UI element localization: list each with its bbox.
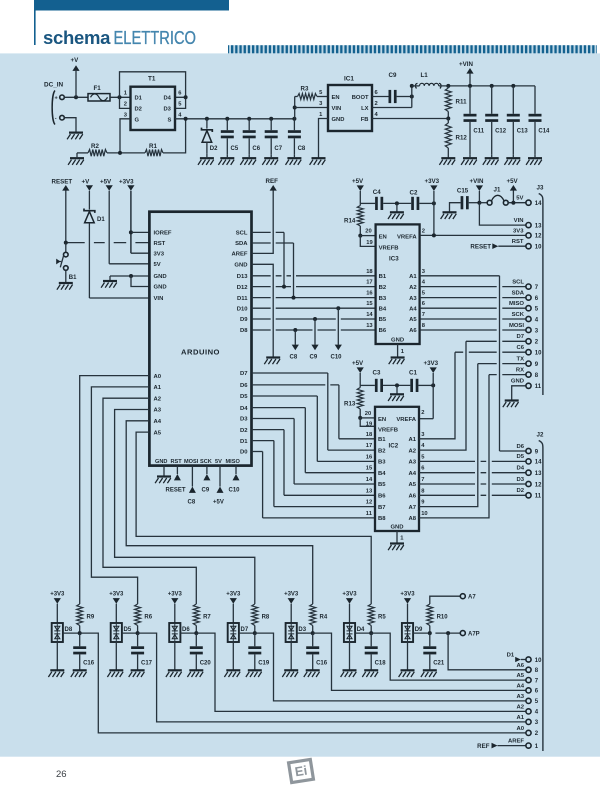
node C1 corner bbox=[431, 383, 435, 387]
svg-text:GND: GND bbox=[391, 338, 404, 344]
ground D4 bbox=[349, 642, 351, 670]
svg-text:15: 15 bbox=[366, 301, 373, 307]
pin RST bottom arrow bbox=[176, 466, 178, 474]
capacitor C12 bbox=[491, 86, 493, 114]
wire D12 to B2 bbox=[252, 286, 376, 288]
svg-text:A5: A5 bbox=[516, 673, 524, 679]
svg-text:VIN: VIN bbox=[332, 106, 342, 112]
svg-text:A2: A2 bbox=[409, 285, 417, 291]
svg-text:A7P: A7P bbox=[468, 632, 480, 638]
svg-text:SCL: SCL bbox=[236, 231, 248, 237]
svg-text:+3V3: +3V3 bbox=[424, 360, 439, 367]
wire IC3 A1 to J2 pin9 bbox=[420, 275, 500, 277]
svg-text:D4: D4 bbox=[240, 406, 248, 412]
svg-text:26: 26 bbox=[56, 769, 67, 780]
svg-text:TX: TX bbox=[516, 356, 524, 362]
svg-text:+3V3: +3V3 bbox=[109, 591, 124, 597]
wire EN pin bbox=[360, 235, 375, 237]
svg-text:REF: REF bbox=[477, 743, 490, 750]
wire C2 to +3V3 node bbox=[419, 202, 434, 204]
ground arduino GND right bbox=[266, 356, 280, 358]
wire A1 up to C6 row bbox=[419, 352, 455, 439]
node cell D4 bbox=[355, 632, 371, 634]
wire VREFB bracket IC2 bbox=[360, 418, 375, 426]
node rail C5 bbox=[225, 117, 229, 121]
node GND pins junction bbox=[129, 274, 133, 278]
resistor R5 bbox=[368, 604, 374, 626]
svg-text:SCK: SCK bbox=[200, 459, 212, 465]
svg-text:10: 10 bbox=[535, 351, 542, 357]
wire IC3 A to J3 SDA bbox=[420, 297, 526, 299]
resistor R6 bbox=[135, 604, 141, 626]
ground D8 bbox=[56, 642, 58, 670]
wire TX row to J3 pin9 bbox=[478, 363, 526, 365]
ground D7 bbox=[232, 642, 234, 670]
wire D9 to B5 bbox=[252, 318, 376, 320]
diode D6 bbox=[169, 623, 180, 642]
svg-text:18: 18 bbox=[366, 432, 373, 438]
ground C12 bbox=[485, 157, 499, 159]
svg-text:C21: C21 bbox=[433, 661, 445, 667]
pin 5V bottom arrow bbox=[219, 466, 221, 487]
pin MOSI bottom arrow bbox=[191, 466, 193, 487]
svg-text:B5: B5 bbox=[379, 317, 387, 323]
capacitor C17 bbox=[137, 633, 139, 646]
svg-text:D8: D8 bbox=[240, 328, 248, 334]
ground IC3 bbox=[391, 356, 405, 358]
svg-text:A5: A5 bbox=[154, 430, 162, 436]
svg-text:C2: C2 bbox=[410, 190, 418, 197]
svg-text:+: + bbox=[55, 96, 58, 102]
wire FB row bbox=[372, 118, 448, 120]
svg-text:C15: C15 bbox=[457, 187, 469, 194]
wire J2 pin9 row bbox=[500, 450, 526, 452]
svg-text:12: 12 bbox=[366, 500, 372, 506]
wire DC_IN- to ground bbox=[64, 118, 76, 133]
svg-text:A4: A4 bbox=[516, 683, 524, 689]
wire C1 to +3V3 node bbox=[418, 384, 433, 386]
svg-text:D2: D2 bbox=[135, 107, 142, 113]
node RESET junction bbox=[64, 241, 68, 245]
node rail D2 bbox=[205, 117, 209, 121]
capacitor C16 bbox=[79, 633, 81, 646]
ground arduino bottom bbox=[157, 475, 171, 477]
svg-text:12: 12 bbox=[535, 482, 542, 488]
svg-text:GND: GND bbox=[332, 117, 345, 123]
capacitor C21 bbox=[429, 633, 431, 646]
svg-text:G: G bbox=[135, 118, 140, 124]
connector J2 bracket bbox=[539, 441, 543, 752]
svg-text:R12: R12 bbox=[456, 135, 468, 142]
node C9/LX bbox=[410, 95, 414, 99]
svg-text:BOOT: BOOT bbox=[352, 95, 369, 101]
svg-text:14: 14 bbox=[535, 201, 542, 207]
svg-text:RESET: RESET bbox=[470, 244, 491, 251]
svg-text:B5: B5 bbox=[378, 482, 386, 488]
svg-text:A4: A4 bbox=[154, 419, 162, 425]
svg-text:MISO: MISO bbox=[226, 459, 241, 465]
svg-text:13: 13 bbox=[366, 323, 373, 329]
svg-text:C13: C13 bbox=[517, 129, 529, 135]
wire SCL bbox=[252, 231, 285, 233]
svg-text:14: 14 bbox=[535, 460, 542, 466]
svg-text:R2: R2 bbox=[91, 143, 99, 150]
wire T1 pin3 down bbox=[120, 119, 131, 153]
node SCL/D12 bbox=[282, 285, 286, 289]
node pin3 junction bbox=[118, 151, 122, 155]
svg-text:A1: A1 bbox=[409, 274, 417, 280]
svg-text:C5: C5 bbox=[231, 146, 239, 152]
wire D5 to IC2 B bbox=[252, 395, 318, 397]
svg-text:16: 16 bbox=[366, 291, 373, 297]
svg-text:18: 18 bbox=[366, 269, 373, 275]
node cell D3 bbox=[297, 632, 313, 634]
svg-text:D1: D1 bbox=[240, 439, 248, 445]
node rail C12 bbox=[490, 84, 494, 88]
svg-text:A0: A0 bbox=[516, 726, 524, 732]
svg-text:LX: LX bbox=[361, 106, 369, 112]
diode D1 bbox=[84, 209, 95, 213]
svg-text:C19: C19 bbox=[258, 661, 270, 667]
svg-text:D3: D3 bbox=[164, 107, 172, 113]
svg-text:+V: +V bbox=[82, 179, 91, 186]
svg-text:A3: A3 bbox=[516, 694, 524, 700]
wire +VIN rail bbox=[439, 85, 535, 87]
net C10 arrow bbox=[337, 308, 339, 345]
svg-text:VIN: VIN bbox=[514, 218, 524, 224]
node cell D7 bbox=[239, 632, 255, 634]
svg-text:EN: EN bbox=[332, 95, 340, 101]
svg-text:C16: C16 bbox=[316, 661, 328, 667]
svg-text:+5V: +5V bbox=[100, 179, 112, 186]
wire C6 row to J3 pin10 bbox=[455, 351, 526, 353]
ground C3/C1 bbox=[396, 385, 398, 394]
wire 3V3 pin bbox=[131, 252, 150, 254]
node pin6 junction bbox=[184, 95, 188, 99]
wire cell D3 to connector bbox=[313, 633, 526, 690]
ground C19 bbox=[248, 669, 262, 671]
level shifter IC2 bbox=[375, 407, 419, 531]
diode D2 bbox=[206, 119, 208, 129]
node cell D8 bbox=[63, 632, 80, 634]
svg-text:20: 20 bbox=[365, 229, 371, 235]
svg-text:+V: +V bbox=[71, 57, 80, 64]
svg-text:C18: C18 bbox=[375, 661, 387, 667]
capacitor C13 bbox=[512, 86, 514, 114]
node cell D6 bbox=[180, 632, 196, 634]
svg-text:D1: D1 bbox=[507, 652, 515, 658]
svg-text:EN: EN bbox=[378, 417, 386, 423]
diode D7 bbox=[228, 623, 239, 642]
svg-text:10: 10 bbox=[535, 245, 542, 251]
svg-text:+3V3: +3V3 bbox=[284, 591, 299, 597]
wire IC3 A to J3 SCL bbox=[420, 286, 526, 288]
svg-text:D12: D12 bbox=[237, 285, 249, 291]
svg-text:A3: A3 bbox=[408, 460, 416, 466]
svg-text:D0: D0 bbox=[240, 450, 248, 456]
svg-text:+VIN: +VIN bbox=[459, 61, 473, 68]
svg-text:C4: C4 bbox=[373, 189, 381, 196]
svg-text:IC2: IC2 bbox=[389, 443, 399, 450]
svg-text:SCL: SCL bbox=[512, 279, 524, 285]
svg-text:R14: R14 bbox=[344, 218, 356, 225]
svg-text:A3: A3 bbox=[154, 408, 162, 414]
svg-text:+3V3: +3V3 bbox=[168, 591, 183, 597]
svg-text:R6: R6 bbox=[144, 615, 152, 621]
svg-text:C9: C9 bbox=[389, 72, 397, 79]
resistor R4 bbox=[310, 604, 316, 626]
capacitor C19 bbox=[254, 633, 256, 646]
svg-text:+3V3: +3V3 bbox=[400, 591, 415, 597]
svg-text:D7: D7 bbox=[516, 334, 524, 340]
svg-text:R5: R5 bbox=[378, 615, 386, 621]
svg-text:MOSI: MOSI bbox=[184, 459, 199, 465]
svg-text:D6: D6 bbox=[240, 383, 248, 389]
svg-text:C8: C8 bbox=[298, 146, 306, 152]
capacitor C18 bbox=[370, 633, 372, 646]
svg-text:C17: C17 bbox=[141, 661, 153, 667]
svg-text:11: 11 bbox=[366, 511, 373, 517]
wire R2 to R1 bbox=[107, 152, 145, 154]
wire IC2 GND bbox=[396, 531, 398, 544]
svg-text:GND: GND bbox=[154, 274, 167, 280]
wire cell D4 to connector bbox=[371, 633, 526, 680]
svg-text:R11: R11 bbox=[456, 99, 468, 106]
node rail R11 bbox=[446, 84, 450, 88]
node VREFA bbox=[432, 233, 436, 237]
svg-text:VREFB: VREFB bbox=[379, 245, 399, 251]
wire arduino GND bottom bbox=[163, 466, 165, 477]
wire J1 to 5V node bbox=[508, 202, 526, 204]
wire VREFB bracket bbox=[360, 236, 375, 247]
wire LX up to L1 bbox=[372, 107, 412, 109]
level shifter IC3 bbox=[376, 224, 420, 344]
connector J2 pin10 bbox=[526, 657, 531, 662]
resistor R8 bbox=[252, 604, 258, 626]
ground D6 bbox=[174, 642, 176, 670]
node R14/EN bbox=[358, 234, 362, 238]
svg-text:D4: D4 bbox=[164, 96, 172, 102]
node C4/C2 ground bbox=[383, 202, 411, 204]
svg-text:2: 2 bbox=[375, 101, 378, 107]
svg-text:AREF: AREF bbox=[508, 739, 524, 745]
resistor R10 bbox=[427, 604, 433, 626]
wire top loop over T1 bbox=[120, 72, 186, 98]
wire D2 to IC2 B bbox=[252, 429, 285, 431]
svg-text:C6: C6 bbox=[516, 345, 524, 351]
resistor R9 bbox=[77, 604, 83, 626]
svg-text:T1: T1 bbox=[148, 76, 156, 83]
svg-text:D3: D3 bbox=[240, 417, 248, 423]
diode D5 bbox=[111, 623, 122, 642]
svg-text:D13: D13 bbox=[237, 274, 249, 280]
svg-text:A2: A2 bbox=[408, 448, 416, 454]
svg-text:11: 11 bbox=[535, 494, 542, 500]
svg-text:D8: D8 bbox=[65, 627, 73, 633]
wire IC1 GND to ground bbox=[319, 119, 329, 159]
node rail R1 bbox=[184, 117, 188, 121]
svg-text:MOSI: MOSI bbox=[509, 323, 524, 329]
node cell D5 bbox=[122, 632, 138, 634]
svg-text:B4: B4 bbox=[378, 471, 386, 477]
wire VREFA row to J3 3V3 bbox=[420, 234, 526, 236]
svg-text:A6: A6 bbox=[409, 328, 417, 334]
ground C11 bbox=[463, 157, 477, 159]
svg-text:RESET: RESET bbox=[166, 488, 186, 494]
svg-text:+3V3: +3V3 bbox=[342, 591, 357, 597]
node rail C6 bbox=[247, 117, 251, 121]
wire R3 to EN bbox=[317, 96, 328, 98]
connector J3 bracket bbox=[539, 194, 543, 396]
svg-text:D7: D7 bbox=[240, 371, 248, 377]
svg-text:7: 7 bbox=[422, 312, 425, 318]
capacitor C16 bbox=[312, 633, 314, 646]
svg-text:11: 11 bbox=[535, 384, 542, 390]
wire GND to J3 pin11 bbox=[512, 386, 526, 401]
wire A7 terminal bbox=[430, 596, 460, 604]
wire VIN to IC1 bbox=[295, 107, 328, 109]
svg-text:ELETTRICO: ELETTRICO bbox=[114, 27, 197, 48]
ground C4/C2 bbox=[396, 203, 398, 212]
svg-text:C12: C12 bbox=[495, 129, 507, 135]
wire DC_IN+ to F1 bbox=[64, 96, 88, 98]
wire D7 to IC2 B bbox=[252, 372, 328, 374]
wire BOOT to C9 bbox=[372, 96, 389, 98]
wire A3 to cell bbox=[115, 410, 255, 605]
pin SCK bottom arrow bbox=[206, 466, 208, 474]
wire C15 right to node bbox=[469, 202, 480, 204]
svg-text:C11: C11 bbox=[473, 129, 484, 135]
svg-text:R8: R8 bbox=[262, 615, 270, 621]
wire IC3 GND bbox=[397, 344, 399, 358]
svg-text:schema: schema bbox=[43, 27, 111, 48]
svg-text:D2: D2 bbox=[516, 488, 524, 494]
svg-text:GND: GND bbox=[234, 263, 247, 269]
svg-text:C9: C9 bbox=[202, 488, 210, 494]
svg-text:A7: A7 bbox=[468, 595, 476, 601]
svg-text:C1: C1 bbox=[409, 370, 417, 377]
svg-text:IC3: IC3 bbox=[389, 256, 399, 263]
svg-text:10: 10 bbox=[535, 658, 542, 664]
svg-text:J2: J2 bbox=[537, 432, 544, 439]
ground C15 bbox=[443, 211, 457, 213]
diode D4 bbox=[344, 623, 355, 642]
svg-text:D1: D1 bbox=[135, 96, 143, 102]
svg-text:R4: R4 bbox=[320, 615, 328, 621]
svg-text:C20: C20 bbox=[200, 661, 212, 667]
svg-text:+5V: +5V bbox=[352, 360, 364, 367]
svg-text:FB: FB bbox=[361, 117, 369, 123]
svg-text:20: 20 bbox=[365, 411, 371, 417]
svg-text:REF: REF bbox=[266, 178, 279, 185]
capacitor C8 bbox=[293, 119, 295, 130]
svg-text:AREF: AREF bbox=[231, 252, 247, 258]
node C10 tap bbox=[336, 306, 340, 310]
ground C6 bbox=[242, 157, 256, 159]
svg-text:C14: C14 bbox=[538, 129, 550, 135]
wire IC2 A to J2 D3 bbox=[419, 483, 526, 485]
wire cell D5 to connector bbox=[138, 633, 526, 722]
ground DC_IN- bbox=[69, 132, 83, 134]
svg-text:D6: D6 bbox=[516, 444, 524, 450]
svg-text:D2: D2 bbox=[210, 146, 218, 152]
svg-text:3V3: 3V3 bbox=[154, 251, 165, 257]
svg-text:A1: A1 bbox=[516, 715, 524, 721]
svg-text:VIN: VIN bbox=[154, 296, 164, 302]
wire R1 to rail bbox=[163, 119, 186, 153]
wire A7P node bbox=[435, 632, 460, 634]
svg-text:B3: B3 bbox=[379, 296, 387, 302]
net C8 arrow bbox=[294, 330, 296, 345]
svg-text:ARDUINO: ARDUINO bbox=[181, 348, 220, 357]
svg-text:D11: D11 bbox=[237, 296, 248, 302]
svg-text:SDA: SDA bbox=[235, 241, 248, 247]
node SDA/D11 bbox=[292, 296, 296, 300]
svg-text:C3: C3 bbox=[373, 370, 381, 377]
svg-text:7: 7 bbox=[421, 477, 424, 483]
svg-text:B6: B6 bbox=[378, 494, 386, 500]
capacitor C5 bbox=[226, 119, 228, 130]
svg-text:+VIN: +VIN bbox=[470, 178, 484, 185]
svg-text:A1: A1 bbox=[408, 437, 416, 443]
svg-text:13: 13 bbox=[366, 488, 373, 494]
svg-text:R10: R10 bbox=[437, 615, 449, 621]
node C8 tap bbox=[293, 328, 297, 332]
svg-text:A8: A8 bbox=[408, 516, 416, 522]
wire C9 to LX node bbox=[397, 96, 412, 98]
svg-text:Ei: Ei bbox=[294, 763, 308, 780]
svg-text:D3: D3 bbox=[516, 477, 524, 483]
svg-text:D1: D1 bbox=[97, 217, 105, 223]
svg-text:A2: A2 bbox=[516, 704, 524, 710]
diode D3 bbox=[286, 623, 297, 642]
wire IC2 A to J2 D2 bbox=[419, 494, 526, 496]
wire RESET to J3 pin10 bbox=[498, 245, 526, 247]
wire IC3 A to J3 MISO bbox=[420, 307, 526, 309]
svg-text:C10: C10 bbox=[331, 355, 343, 361]
svg-text:D7: D7 bbox=[241, 627, 249, 633]
svg-text:5V: 5V bbox=[516, 196, 523, 202]
svg-text:A4: A4 bbox=[409, 306, 417, 312]
wire REF to AREF pin bbox=[498, 745, 526, 747]
ground C20 bbox=[189, 669, 203, 671]
resistor R7 bbox=[193, 604, 199, 626]
ground IC1 bbox=[312, 157, 326, 159]
node C9 tap bbox=[313, 317, 317, 321]
svg-text:R3: R3 bbox=[301, 86, 309, 93]
svg-text:C7: C7 bbox=[274, 146, 282, 152]
capacitor C20 bbox=[195, 633, 197, 646]
wire A0 to cell bbox=[80, 376, 150, 604]
wire cell D8 to connector bbox=[80, 633, 526, 733]
svg-text:A6: A6 bbox=[408, 494, 416, 500]
wire GND pins to ground bbox=[110, 275, 149, 277]
wire D7 row to J3 pin2 bbox=[466, 340, 526, 342]
svg-text:2: 2 bbox=[421, 410, 424, 416]
svg-text:IC1: IC1 bbox=[344, 76, 354, 83]
node R13/EN IC2 bbox=[358, 416, 362, 420]
ground D3 bbox=[290, 642, 292, 670]
svg-text:R13: R13 bbox=[344, 401, 356, 408]
svg-text:3V3: 3V3 bbox=[513, 228, 524, 234]
wire C15 left to ground bbox=[450, 203, 461, 213]
ground IC2 bbox=[390, 542, 404, 544]
svg-text:2: 2 bbox=[422, 229, 425, 235]
svg-text:17: 17 bbox=[366, 443, 372, 449]
wire D13 to B1 bbox=[252, 275, 376, 277]
svg-text:C8: C8 bbox=[188, 500, 196, 506]
node T1 pin1 junction bbox=[118, 95, 122, 99]
